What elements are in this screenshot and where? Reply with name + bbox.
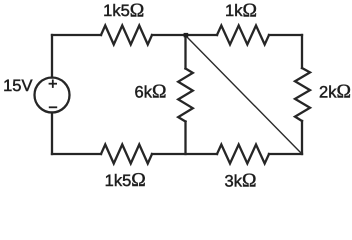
- svg-text:1kΩ: 1kΩ: [225, 0, 257, 21]
- resistor 6k (middle, vertical): [178, 69, 193, 122]
- wire top-right (R 1k to right corner): [269, 34, 302, 36]
- wire left lower (bottom rail up to source): [51, 113, 53, 155]
- wire right upper (corner down to R 2k): [301, 35, 303, 68]
- resistor 3k (bottom right): [217, 145, 269, 164]
- svg-text:6kΩ: 6kΩ: [135, 82, 167, 103]
- wire bottom-right rail: [269, 153, 302, 155]
- wire top-middle (R 1k5 to node A): [152, 34, 217, 36]
- wire bottom-left rail: [52, 153, 101, 155]
- wire bottom-middle rail: [152, 153, 217, 155]
- svg-text:1k5Ω: 1k5Ω: [103, 0, 144, 21]
- resistor 1k5 (bottom): [101, 145, 152, 164]
- svg-text:3kΩ: 3kΩ: [225, 171, 257, 191]
- svg-text:1k5Ω: 1k5Ω: [105, 170, 146, 191]
- wire top-left (source top to R 1k5 top): [52, 34, 101, 36]
- svg-text:15V: 15V: [3, 77, 32, 95]
- svg-text:2kΩ: 2kΩ: [319, 82, 351, 103]
- wire middle upper (node A down to R 6k): [184, 35, 186, 69]
- node A junction dot: [184, 33, 189, 37]
- wire right lower (R 2k to bottom right corner): [301, 121, 303, 154]
- wire middle lower (R 6k to bottom rail): [184, 122, 186, 155]
- wire diagonal (node A to bottom right corner): [187, 37, 302, 154]
- plus terminal mark of source: [49, 83, 57, 85]
- voltage source V1 15V (circle): [35, 78, 70, 113]
- minus terminal mark of source: [49, 106, 57, 108]
- resistor 2k (right, vertical): [295, 68, 310, 121]
- resistor 1k5 (top): [101, 26, 152, 45]
- wire left upper (source to top rail): [51, 35, 53, 78]
- resistor 1k (top right): [217, 26, 269, 45]
